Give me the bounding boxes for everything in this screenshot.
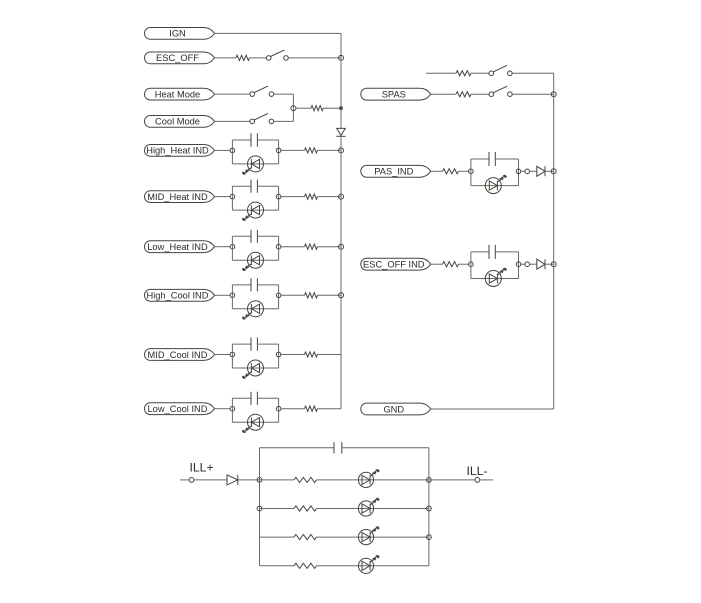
wire block bottom (Low_Heat IND) (232, 259, 278, 261)
terminal circle ILL- (475, 478, 480, 483)
wire block to resistor (MID_Cool IND) (281, 354, 305, 356)
wire block top-right (PAS_IND) (495, 158, 518, 160)
capacitor (ILL) (334, 442, 342, 453)
svg-text:SPAS: SPAS (382, 90, 406, 100)
wire MID_Heat IND label to block (215, 196, 231, 198)
wire row 1 mid (317, 479, 429, 481)
terminal circle left (MID_Heat IND) (230, 194, 235, 199)
terminal circle ILL+ (189, 478, 194, 483)
junction circle right row 3 (427, 535, 432, 540)
wire block left vertical (High_Cool IND) (231, 285, 233, 309)
wire High_Cool IND label to block (215, 294, 231, 296)
wire right bus vertical (ESC_OFF IND to GND) (553, 264, 555, 409)
resistor (ESC_OFF) (236, 55, 249, 60)
junction circle on right bus (PAS_IND) (551, 169, 556, 174)
LED (ILL row 3) (358, 526, 379, 544)
wire left bus vertical segment (340, 295, 342, 354)
wire circle to diode (ESC_OFF IND) (530, 263, 537, 265)
wire left bus vertical segment (340, 150, 342, 196)
resistor (High_Heat IND) (305, 148, 318, 153)
resistor (ILL row 4) (294, 563, 317, 568)
wire block bottom (MID_Cool IND) (232, 367, 278, 369)
resistor (ILL row 3) (294, 535, 317, 540)
LED (Low_Cool IND) (242, 414, 264, 433)
svg-text:High_Cool IND: High_Cool IND (146, 291, 208, 301)
LED (High_Heat IND) (242, 156, 264, 175)
terminal circle left (PAS_IND) (469, 169, 474, 174)
svg-text:ILL-: ILL- (467, 464, 488, 478)
resistor (MID_Heat IND) (305, 194, 318, 199)
wire block to resistor (High_Heat IND) (281, 149, 305, 151)
wire resistor to switch (SPAS) (471, 93, 489, 95)
wire switch to right bus (top right row) (512, 72, 554, 74)
wire resistor to switch (250, 57, 267, 59)
wire circle to diode (PAS_IND) (530, 170, 537, 172)
wire block to resistor (High_Cool IND) (281, 294, 305, 296)
terminal circle mid (ESC_OFF IND) (525, 262, 530, 267)
wire block left vertical (ESC_OFF IND) (470, 252, 472, 279)
wire to diode circle (ESC_OFF IND) (521, 263, 525, 265)
switch (Cool Mode) (250, 113, 274, 123)
resistor (MID_Cool IND) (305, 352, 318, 357)
wire left bus vertical segment (340, 197, 342, 247)
wire block top-left (MID_Heat IND) (232, 185, 251, 187)
wire block bottom (Low_Cool IND) (232, 421, 278, 423)
LED (ILL row 4) (358, 555, 379, 573)
wire row 1 left (260, 479, 295, 481)
wire High_Heat IND label to block (215, 149, 231, 151)
wire left bus vertical segment (340, 355, 342, 409)
switch (Heat Mode) (250, 86, 274, 96)
LED (ILL row 1) (358, 469, 379, 487)
wire block right vertical (Low_Heat IND) (278, 236, 280, 260)
junction circle right row 1 (427, 478, 432, 483)
wire Heat Mode switch to elbow (274, 93, 294, 95)
net label High_Cool IND (144, 289, 214, 301)
svg-text:Low_Heat IND: Low_Heat IND (147, 242, 208, 252)
wire mode resistor to bus (323, 107, 341, 109)
svg-text:Heat Mode: Heat Mode (155, 89, 200, 99)
wire left bus vertical (ESC_OFF down to mode junction) (340, 58, 342, 108)
wire diode to bus (ESC_OFF IND) (545, 263, 554, 265)
wire block left vertical (bottom) (259, 448, 261, 566)
wire block left vertical (Low_Heat IND) (231, 236, 233, 260)
wire block to resistor (Low_Cool IND) (281, 408, 305, 410)
resistor (ILL row 2) (294, 506, 317, 511)
resistor (SPAS) (456, 92, 471, 97)
wire IGN to bus (215, 32, 342, 34)
LED (ESC_OFF IND) (485, 268, 507, 287)
wire mode join to resistor (296, 107, 311, 109)
net label IGN (145, 28, 215, 40)
wire right bus vertical (PAS_IND to ESC_OFF IND) (553, 171, 555, 264)
svg-text:High_Heat IND: High_Heat IND (146, 146, 209, 156)
LED (ILL row 2) (358, 498, 379, 516)
resistor (Low_Heat IND) (305, 244, 318, 249)
resistor (ESC_OFF IND) (443, 262, 459, 267)
wire row 3 left (260, 536, 295, 538)
wire right bus vertical (top to SPAS) (553, 73, 555, 94)
terminal circle right (ESC_OFF IND) (516, 262, 521, 267)
wire block top-right (MID_Cool IND) (257, 343, 278, 345)
wire block top-right (Low_Cool IND) (257, 397, 278, 399)
wire resistor to bus (High_Heat IND) (318, 149, 342, 151)
terminal circle right (PAS_IND) (516, 169, 521, 174)
terminal circle right (Low_Heat IND) (276, 244, 281, 249)
wire block right vertical (MID_Heat IND) (278, 186, 280, 210)
svg-text:MID_Cool IND: MID_Cool IND (148, 350, 208, 360)
wire block left vertical (High_Heat IND) (231, 140, 233, 164)
wire block to ILL- terminal (429, 479, 475, 481)
wire block right vertical (bottom) (428, 448, 430, 566)
LED (PAS_IND) (485, 175, 507, 194)
junction ESC_OFF/bus (339, 55, 344, 60)
terminal circle left (Low_Cool IND) (230, 406, 235, 411)
wire diode to bus (PAS_IND) (545, 170, 554, 172)
wire ESC_OFF label to resistor (215, 57, 237, 59)
wire ESC_OFF IND label to resistor (431, 263, 443, 265)
junction SPAS/right bus (551, 92, 556, 97)
wire block bottom (PAS_IND) (471, 185, 519, 187)
wire block right vertical (PAS_IND) (518, 159, 520, 186)
wire left bus vertical (IGN down to ESC_OFF junction) (340, 33, 342, 58)
resistor (ILL row 1) (294, 477, 317, 482)
net label Low_Cool IND (144, 403, 214, 415)
wire GND label to right bus (431, 408, 554, 410)
wire row 2 mid (317, 508, 429, 510)
junction circle on bus (MID_Heat IND) (339, 194, 344, 199)
wire block left vertical (Low_Cool IND) (231, 398, 233, 422)
diode (ESC_OFF IND) (537, 259, 545, 269)
wire left bus vertical segment (340, 247, 342, 296)
svg-text:PAS_IND: PAS_IND (374, 167, 413, 177)
terminal circle right (Low_Cool IND) (276, 406, 281, 411)
wire resistor to bus (MID_Heat IND) (318, 196, 342, 198)
junction dot on bus (339, 106, 343, 110)
wire resistor to bus (MID_Cool IND) (318, 354, 342, 356)
wire Low_Cool IND label to block (215, 408, 231, 410)
capacitor (PAS_IND) (489, 152, 495, 166)
wire block bottom (ESC_OFF IND) (471, 278, 519, 280)
wire block right vertical (Low_Cool IND) (278, 398, 280, 422)
switch (SPAS) (489, 86, 512, 96)
wire elbow up to mode join (292, 108, 294, 121)
junction circle on bus (Low_Heat IND) (339, 244, 344, 249)
wire row 4 left (260, 565, 295, 567)
net label ESC_OFF IND (361, 258, 431, 270)
terminal circle right (MID_Cool IND) (276, 352, 281, 357)
wire elbow down to mode join (292, 94, 294, 108)
wire block top-left (High_Cool IND) (232, 284, 251, 286)
wire block right vertical (MID_Cool IND) (278, 344, 280, 368)
wire switch to bus (288, 57, 341, 59)
wire top-right row lead (426, 72, 456, 74)
wire resistor to block (ESC_OFF IND) (459, 263, 469, 265)
wire cap branch right (342, 447, 429, 449)
svg-text:MID_Heat IND: MID_Heat IND (147, 192, 208, 202)
wire block top-right (Low_Heat IND) (257, 235, 278, 237)
svg-text:IGN: IGN (169, 29, 186, 39)
terminal circle left (ESC_OFF IND) (469, 262, 474, 267)
wire resistor to bus (High_Cool IND) (318, 294, 342, 296)
wire block right vertical (High_Cool IND) (278, 285, 280, 309)
wire block top-left (Low_Heat IND) (232, 235, 251, 237)
wire block to resistor (Low_Heat IND) (281, 246, 305, 248)
terminal circle right (High_Heat IND) (276, 148, 281, 153)
LED (High_Cool IND) (242, 301, 264, 320)
switch (ESC_OFF) (266, 50, 288, 60)
wire block to resistor (MID_Heat IND) (281, 196, 305, 198)
wire block right vertical (ESC_OFF IND) (518, 252, 520, 279)
switch (top right row) (489, 65, 512, 75)
terminal circle left (High_Cool IND) (230, 293, 235, 298)
wire block top-left (PAS_IND) (471, 158, 489, 160)
terminal circle right (High_Cool IND) (276, 293, 281, 298)
wire SPAS label to resistor (431, 93, 456, 95)
wire block top-left (ESC_OFF IND) (471, 251, 489, 253)
wire MID_Cool IND label to block (215, 354, 231, 356)
resistor (PAS_IND) (443, 169, 459, 174)
wire cap branch left (260, 447, 335, 449)
wire row 3 mid (317, 536, 429, 538)
LED (MID_Cool IND) (242, 360, 264, 379)
wire Cool Mode switch to elbow (274, 120, 294, 122)
diode D1 (bus) (336, 128, 345, 136)
LED (Low_Heat IND) (242, 252, 264, 271)
wire resistor to bus (Low_Heat IND) (318, 246, 342, 248)
net label Heat Mode (145, 88, 215, 100)
net label High_Heat IND (145, 145, 215, 157)
wire PAS_IND label to resistor (431, 170, 443, 172)
capacitor (MID_Cool IND) (251, 338, 257, 351)
wire block top-left (High_Heat IND) (232, 139, 251, 141)
wire block bottom (High_Cool IND) (232, 308, 278, 310)
capacitor (ESC_OFF IND) (489, 245, 495, 259)
resistor (Low_Cool IND) (305, 406, 318, 411)
wire block left vertical (MID_Cool IND) (231, 344, 233, 368)
wire to diode circle (PAS_IND) (521, 170, 525, 172)
wire ILL+ to diode (194, 479, 227, 481)
svg-text:ILL+: ILL+ (190, 461, 214, 475)
wire Cool Mode label to switch (215, 120, 250, 122)
svg-text:ESC_OFF IND: ESC_OFF IND (363, 260, 425, 270)
svg-text:GND: GND (383, 404, 404, 414)
wire block top-left (MID_Cool IND) (232, 343, 251, 345)
capacitor (Low_Heat IND) (251, 230, 257, 243)
svg-text:Low_Cool IND: Low_Cool IND (148, 404, 208, 414)
wire block top-right (High_Heat IND) (257, 139, 278, 141)
capacitor (High_Cool IND) (251, 278, 257, 291)
wire block right vertical (High_Heat IND) (278, 140, 280, 164)
net label Cool Mode (145, 116, 215, 128)
terminal circle left (MID_Cool IND) (230, 352, 235, 357)
wire resistor to switch (top right row) (471, 72, 489, 74)
svg-text:Cool Mode: Cool Mode (155, 117, 200, 127)
net label Low_Heat IND (145, 241, 215, 253)
wire block bottom (High_Heat IND) (232, 163, 278, 165)
resistor (High_Cool IND) (305, 293, 318, 298)
wire right bus vertical (SPAS to PAS_IND) (553, 94, 555, 171)
capacitor (High_Heat IND) (251, 133, 257, 146)
wire block bottom (MID_Heat IND) (232, 209, 278, 211)
wire block left vertical (MID_Heat IND) (231, 186, 233, 210)
net label MID_Heat IND (145, 191, 215, 203)
wire block top-right (ESC_OFF IND) (495, 251, 518, 253)
wire Heat Mode label to switch (215, 93, 250, 95)
wire row 2 left (260, 508, 295, 510)
junction circle right row 2 (427, 506, 432, 511)
junction circle left row 2 (257, 506, 262, 511)
terminal circle mid (PAS_IND) (525, 169, 530, 174)
wire Low_Heat IND label to block (215, 246, 231, 248)
terminal circle right (MID_Heat IND) (276, 194, 281, 199)
junction circle block top-left (257, 478, 262, 483)
net label GND (361, 403, 431, 415)
net label ESC_OFF (145, 52, 215, 64)
wire ILL- stub (480, 479, 493, 481)
diode (ILL+) (227, 475, 238, 485)
wire ILL+ stub (180, 479, 189, 481)
wire bus down to diode (340, 108, 342, 128)
wire resistor to bus (Low_Cool IND) (318, 408, 342, 410)
resistor (mode) (311, 106, 323, 111)
terminal circle left (High_Heat IND) (230, 148, 235, 153)
terminal circle left (Low_Heat IND) (230, 244, 235, 249)
wire resistor to block (PAS_IND) (459, 170, 469, 172)
junction circle on bus (High_Cool IND) (339, 293, 344, 298)
net label MID_Cool IND (145, 349, 215, 361)
wire block top-right (High_Cool IND) (257, 284, 278, 286)
junction Heat/Cool modes (291, 106, 296, 111)
wire block top-left (Low_Cool IND) (232, 397, 251, 399)
LED (MID_Heat IND) (242, 202, 264, 221)
net label SPAS (361, 88, 431, 100)
junction circle on bus (High_Heat IND) (339, 148, 344, 153)
net label PAS_IND (361, 165, 431, 177)
svg-text:ESC_OFF: ESC_OFF (156, 53, 199, 63)
capacitor (MID_Heat IND) (251, 180, 257, 193)
wire row 4 mid (317, 565, 429, 567)
wire block left vertical (PAS_IND) (470, 159, 472, 186)
capacitor (Low_Cool IND) (251, 392, 257, 405)
diode (PAS_IND) (537, 166, 545, 176)
wire switch to right bus (SPAS) (512, 93, 554, 95)
wire diode to block (238, 479, 260, 481)
wire diode to bus continue (340, 137, 342, 150)
wire block top-right (MID_Heat IND) (257, 185, 278, 187)
resistor (top right row) (456, 71, 471, 76)
junction circle on right bus (ESC_OFF IND) (551, 262, 556, 267)
